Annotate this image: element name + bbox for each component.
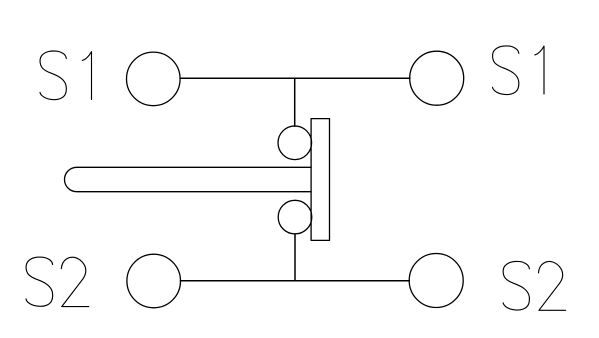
label S2 right	[503, 261, 566, 310]
plunger	[64, 167, 311, 191]
wire top S1 rail	[180, 77, 410, 79]
contact circle top	[278, 126, 312, 160]
pad S2 left	[127, 254, 181, 308]
pad S1 left	[127, 52, 181, 106]
wire bottom S2 rail	[180, 280, 409, 282]
label S1 left	[40, 51, 92, 100]
pad S2 right	[409, 254, 463, 308]
contact circle bottom	[278, 200, 312, 234]
label S1 right	[493, 46, 545, 95]
pad S1 right	[410, 51, 464, 105]
wire bottom branch to contact	[294, 234, 296, 281]
wire top branch to contact	[294, 78, 296, 126]
label S2 left	[26, 257, 89, 306]
actuator bar	[311, 119, 329, 241]
